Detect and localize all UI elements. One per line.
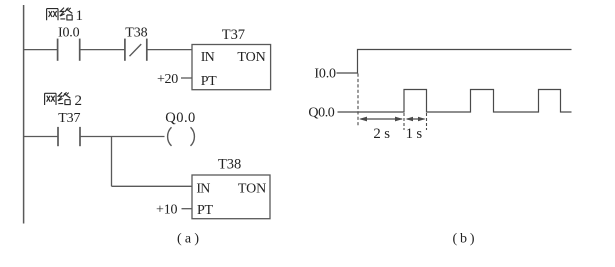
svg-text:TON: TON [238,182,266,197]
svg-text:1: 1 [76,8,84,24]
wire rung2 rail to contact T37 [24,136,58,138]
contact T37 [58,127,80,146]
svg-text:+20: +20 [157,72,178,87]
svg-text:IN: IN [196,182,210,197]
arrow 1s [407,118,425,120]
svg-text:T37: T37 [222,27,245,43]
svg-text:2: 2 [75,93,83,109]
wire PT stub T38 [182,208,193,210]
dashed tick at pulse fall [426,113,428,130]
waveform Q0.0 [338,90,572,113]
wire contact T37 to coil Q0.0 [80,136,165,138]
arrowhead left (1s) [406,117,414,121]
svg-text:T38: T38 [125,26,147,41]
timer box T37 [192,45,271,90]
timer box T38 [192,175,270,219]
arrow 2s [361,118,403,120]
wire branch to timer box T38 [112,185,193,187]
svg-text:PT: PT [197,203,213,218]
svg-text:( b ): ( b ) [453,231,475,246]
svg-text:IN: IN [201,50,215,65]
svg-text:Q0.0: Q0.0 [308,106,334,121]
wire contact I0.0 to contact T38 [80,49,125,51]
wire contact T38 to timer box T37 [147,49,192,51]
svg-text:I0.0: I0.0 [58,26,80,41]
wire branch vertical [111,137,113,187]
dashed guide line at I0.0 edge [357,74,359,127]
svg-text:( a ): ( a ) [177,231,199,246]
arrowhead left (2s) [359,117,367,122]
svg-text:T37: T37 [58,111,80,126]
contact I0.0 [58,39,80,61]
label network1 (Chinese) [47,8,73,21]
wire PT stub T37 [181,77,192,79]
svg-text:PT: PT [201,74,217,89]
wire rung1 rail to contact I0.0 [24,49,58,51]
svg-text:T38: T38 [218,156,241,172]
arrowhead right (1s) [418,117,426,121]
arrowhead right (2s) [395,117,403,122]
svg-text:1 s: 1 s [406,126,423,142]
svg-text:+10: +10 [156,202,178,217]
contact T38 (normally closed) [125,39,147,61]
waveform I0.0 [337,50,572,74]
label network2 (Chinese) [45,92,71,105]
svg-text:Q0.0: Q0.0 [165,110,195,126]
coil Q0.0 [168,127,172,146]
svg-text:2 s: 2 s [373,126,390,142]
svg-text:I0.0: I0.0 [314,66,336,81]
left power rail [23,5,25,224]
dashed tick at pulse rise [403,113,405,130]
svg-text:TON: TON [237,50,265,65]
